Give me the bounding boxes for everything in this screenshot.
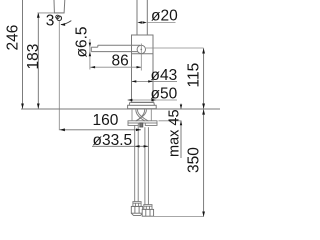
dimension o50 line: [128, 99, 177, 101]
washer tabs: [128, 123, 138, 125]
max45 arrows: [180, 105, 182, 110]
mounting nut: [140, 123, 143, 127]
arrows o20: [137, 21, 142, 23]
right hose fitting ferrule: [144, 205, 152, 210]
hose crossing: [136, 111, 149, 121]
svg-text:ø43: ø43: [151, 67, 178, 84]
shank: [136, 109, 146, 111]
dimension 115 line: [203, 48, 205, 108]
right hose hex nut: [142, 209, 153, 216]
spout arm: [91, 45, 140, 51]
body seam line: [132, 53, 154, 55]
svg-text:350: 350: [186, 147, 203, 173]
angle 3 arc: [61, 21, 71, 25]
handle pivot circle: [57, 16, 62, 21]
counter hole edges: [131, 109, 133, 121]
extension line handle bottom: [37, 12, 64, 14]
dimension line o6.5: [89, 39, 91, 70]
svg-text:3°: 3°: [46, 13, 61, 30]
dimension line o20: [147, 22, 175, 24]
svg-text:max 45: max 45: [167, 109, 183, 157]
svg-text:160: 160: [93, 112, 119, 129]
dimension 246 line: [22, 0, 24, 109]
pivot circle on body: [137, 45, 145, 53]
left hose fitting ferrule: [133, 202, 141, 207]
extension line washer top right: [159, 120, 182, 122]
left hose hex nut: [131, 206, 142, 215]
svg-text:ø33.5: ø33.5: [93, 132, 133, 149]
svg-text:246: 246: [5, 25, 22, 51]
svg-text:86: 86: [112, 53, 129, 70]
dimension 350 line: [203, 109, 205, 216]
dimension max45 line: [180, 104, 182, 159]
dimension o33.5 line: [92, 145, 148, 147]
mounting washer: [128, 121, 157, 123]
svg-text:ø6.5: ø6.5: [74, 26, 91, 57]
dimension 86 line: [90, 66, 141, 68]
riser pipe: [137, 0, 147, 35]
svg-text:ø20: ø20: [151, 8, 178, 25]
counter top line: [21, 108, 220, 110]
dimension 160 line: [60, 129, 141, 131]
handle axis line: [58, 21, 60, 131]
arrows o6.5: [89, 43, 91, 47]
body centerline: [140, 44, 142, 71]
body column: [132, 35, 154, 103]
dimension o43 line: [132, 80, 178, 82]
extension line hose end: [154, 216, 204, 218]
base flange plate: [128, 105, 157, 108]
svg-text:ø50: ø50: [151, 85, 178, 102]
svg-text:183: 183: [25, 44, 42, 70]
svg-text:115: 115: [186, 63, 203, 88]
handle lever: [54, 0, 65, 13]
extension line spout level right: [146, 47, 204, 49]
dimension 183 line: [37, 13, 39, 109]
base flange upper ring: [129, 102, 154, 105]
supply hoses: [135, 125, 149, 204]
